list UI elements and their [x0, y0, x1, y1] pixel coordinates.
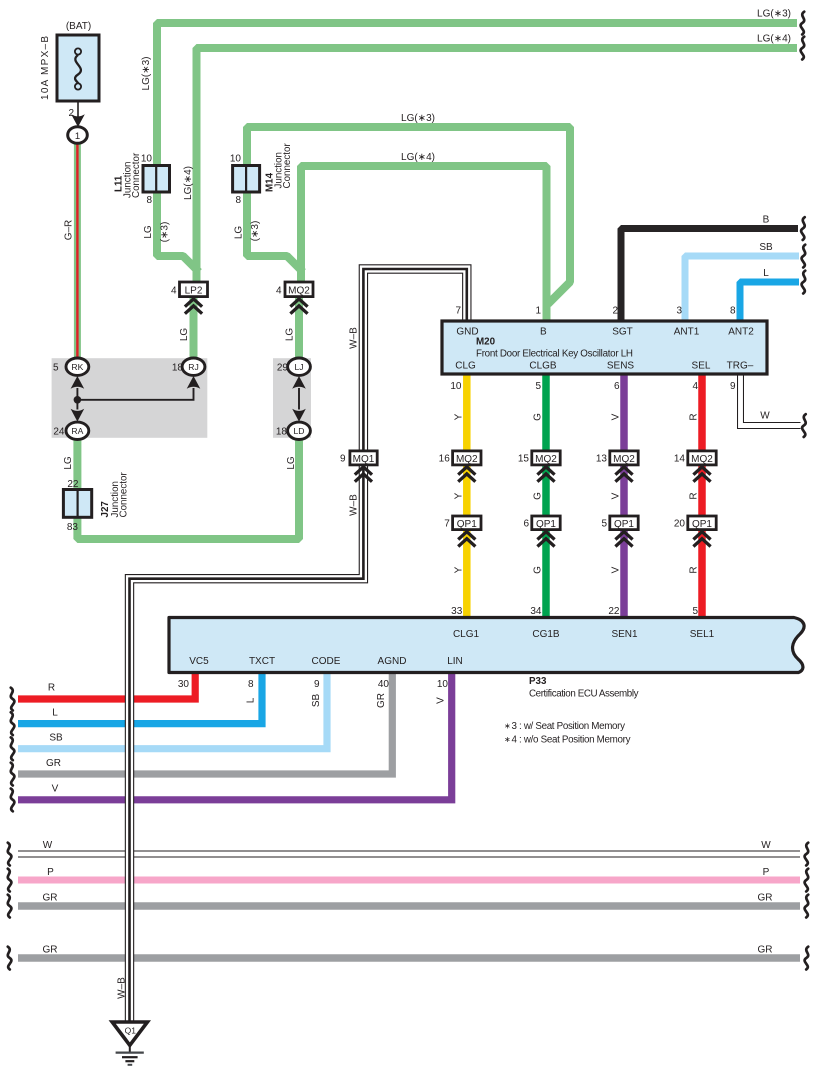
svg-text:Connector: Connector [131, 152, 142, 198]
break right B [801, 217, 805, 240]
svg-text:CLG: CLG [455, 361, 476, 372]
svg-text:LG(∗3): LG(∗3) [141, 57, 152, 91]
break left SB [11, 737, 15, 760]
oval LJ [277, 358, 311, 375]
svg-text:W–B: W–B [117, 977, 128, 999]
wire GR bottom 2 [18, 954, 800, 962]
connector 14 MQ2 [674, 451, 716, 465]
connector chevrons 7 QP1 [458, 532, 475, 547]
svg-text:RJ: RJ [188, 362, 199, 372]
svg-text:10: 10 [450, 381, 462, 392]
junction connector J27 [63, 472, 129, 533]
svg-text:GR: GR [758, 945, 773, 956]
svg-text:Y: Y [454, 413, 465, 420]
break left P [8, 869, 12, 892]
svg-text:MQ2: MQ2 [288, 285, 310, 296]
svg-text:R: R [48, 683, 55, 694]
break left W bottom [8, 843, 12, 866]
wire LG J27 to LD [77, 439, 299, 539]
svg-text:LG: LG [285, 328, 296, 342]
svg-text:P: P [763, 867, 770, 878]
svg-text:3 : w/ Seat Position Memory: 3 : w/ Seat Position Memory [512, 721, 626, 732]
svg-text:18: 18 [172, 362, 184, 373]
svg-text:29: 29 [277, 362, 289, 373]
junction connector L11 [114, 152, 170, 206]
break right GR1 [805, 895, 809, 918]
wire W-B GND to MQ1 [363, 269, 466, 451]
svg-text:7: 7 [455, 306, 461, 317]
svg-text:18: 18 [276, 426, 288, 437]
svg-text:LP2: LP2 [185, 285, 203, 296]
svg-text:8: 8 [248, 679, 254, 690]
fuse 10A MPX-B [57, 35, 99, 101]
svg-text:QP1: QP1 [536, 519, 556, 530]
svg-text:CLGB: CLGB [529, 361, 557, 372]
shield box right (LJ LD) [273, 358, 311, 438]
wire G-R fuse node 1 to RK [74, 141, 81, 358]
wire LG M14 pin 8 to MQ2 riser [247, 192, 303, 273]
wire LG MQ2 to LJ [295, 297, 303, 359]
svg-text:GR: GR [46, 758, 61, 769]
svg-text:LG: LG [63, 456, 74, 470]
svg-text:2: 2 [612, 306, 618, 317]
break right top LG(*3) [801, 12, 805, 35]
svg-text:1: 1 [535, 306, 541, 317]
wire Y CLG to CLG1 [463, 374, 471, 618]
svg-text:V: V [52, 784, 59, 795]
svg-text:SEL1: SEL1 [690, 629, 715, 640]
svg-text:4: 4 [692, 381, 698, 392]
svg-text:GR: GR [43, 945, 58, 956]
svg-text:G–R: G–R [64, 220, 75, 241]
svg-text:4: 4 [171, 285, 177, 296]
wire LG(*4) MQ2 riser to M20 pin 1 B [301, 166, 547, 320]
connector 15 MQ2 [518, 451, 560, 465]
svg-text:10: 10 [437, 679, 449, 690]
pin 2 of fuse [68, 101, 78, 119]
svg-text:LG(∗3): LG(∗3) [757, 9, 791, 20]
connector chevrons 5 QP1 [615, 532, 632, 547]
svg-text:9: 9 [730, 381, 736, 392]
svg-text:SEN1: SEN1 [611, 629, 638, 640]
wire V left to LIN [18, 672, 452, 800]
svg-text:CG1B: CG1B [532, 629, 560, 640]
svg-text:LG: LG [286, 456, 297, 470]
connector chevrons 6 QP1 [537, 532, 554, 547]
connector 13 MQ2 [596, 451, 638, 465]
svg-text:G: G [533, 492, 544, 500]
svg-text:SGT: SGT [612, 327, 633, 338]
svg-text:LIN: LIN [447, 656, 463, 667]
svg-text:Q1: Q1 [125, 1026, 137, 1036]
svg-text:10: 10 [141, 154, 153, 165]
svg-text:(∗3): (∗3) [160, 222, 171, 243]
svg-text:QP1: QP1 [692, 519, 712, 530]
svg-text:P33: P33 [529, 676, 547, 687]
oval RA [53, 422, 88, 439]
svg-text:MQ2: MQ2 [456, 454, 478, 465]
svg-text:M20: M20 [476, 337, 496, 348]
connector chevrons MQ1 [355, 467, 372, 482]
wire B black SGT to right edge [621, 229, 798, 321]
break right W [802, 414, 806, 437]
svg-text:LG: LG [234, 226, 245, 240]
svg-text:20: 20 [674, 519, 686, 530]
arrow into node 1 [71, 114, 85, 127]
wire junction to RJ with arrow [77, 376, 200, 400]
wire R SEL to SEL1 [698, 374, 706, 618]
wire W TRG- to right edge [741, 374, 801, 426]
svg-text:Connector: Connector [119, 472, 130, 518]
svg-text:22: 22 [608, 606, 620, 617]
svg-text:8: 8 [730, 306, 736, 317]
break right P [805, 869, 809, 892]
svg-text:L: L [52, 708, 58, 719]
wire SB ANT1 to right edge [685, 256, 799, 320]
wire G CLGB to CG1B [542, 374, 550, 618]
oval LD [276, 422, 311, 439]
connector chevrons 15 MQ2 [537, 467, 554, 482]
connector 5 QP1 [601, 516, 638, 530]
svg-text:Y: Y [454, 492, 465, 499]
svg-text:MQ1: MQ1 [353, 454, 375, 465]
junction dot [74, 396, 82, 404]
connector 4 MQ2 [276, 282, 313, 297]
svg-text:L: L [246, 697, 257, 703]
svg-text:∗: ∗ [504, 735, 511, 744]
svg-text:V: V [436, 697, 447, 704]
svg-text:SB: SB [49, 733, 63, 744]
svg-text:LG(∗3): LG(∗3) [401, 113, 435, 124]
ground Q1 [112, 1022, 147, 1045]
connector chevrons LP2 [185, 299, 202, 314]
svg-text:30: 30 [178, 679, 190, 690]
svg-text:4: 4 [276, 285, 282, 296]
wire GR left to AGND [18, 672, 392, 774]
svg-text:8: 8 [146, 195, 152, 206]
break right GR2 [805, 947, 809, 970]
connector chevrons 13 MQ2 [615, 467, 632, 482]
node 1 oval [68, 127, 88, 144]
break left GR1 [8, 895, 12, 918]
svg-text:QP1: QP1 [457, 519, 477, 530]
svg-text:40: 40 [378, 679, 390, 690]
svg-text:(BAT): (BAT) [66, 21, 91, 32]
svg-text:14: 14 [674, 454, 686, 465]
svg-text:R: R [689, 566, 700, 573]
svg-text:22: 22 [67, 479, 79, 490]
svg-text:V: V [611, 492, 622, 499]
svg-text:TXCT: TXCT [249, 656, 275, 667]
wire LJ to LD with arrows [292, 376, 306, 422]
break right top LG(*4) [801, 37, 805, 60]
connector chevrons MQ2 top [290, 299, 307, 314]
wire LG LP2 to RJ [190, 297, 198, 359]
svg-text:Y: Y [454, 566, 465, 573]
svg-text:RA: RA [71, 426, 83, 436]
connector 6 QP1 [523, 516, 560, 530]
svg-text:5: 5 [535, 381, 541, 392]
svg-text:34: 34 [530, 606, 542, 617]
svg-text:83: 83 [67, 522, 79, 533]
svg-text:W–B: W–B [349, 494, 360, 516]
svg-text:GR: GR [376, 693, 387, 708]
svg-text:SEL: SEL [692, 361, 711, 372]
svg-text:Front Door Electrical Key Osci: Front Door Electrical Key Oscillator LH [476, 349, 633, 360]
svg-text:B: B [540, 327, 547, 338]
wire R left to VC5 [18, 672, 195, 699]
svg-text:TRG–: TRG– [727, 361, 754, 372]
svg-text:7: 7 [444, 519, 450, 530]
break right SB [802, 245, 806, 268]
svg-text:8: 8 [235, 195, 241, 206]
svg-text:33: 33 [451, 606, 463, 617]
svg-text:5: 5 [692, 606, 698, 617]
svg-text:W: W [43, 840, 53, 851]
arrow into RA [71, 400, 85, 422]
svg-text:3: 3 [676, 306, 682, 317]
wire P bottom [18, 877, 800, 884]
wire GR bottom 1 [18, 902, 800, 910]
wire LG(*4) LP2 riser to right edge [197, 48, 798, 282]
svg-text:15: 15 [518, 454, 530, 465]
svg-text:24: 24 [53, 426, 65, 437]
svg-text:QP1: QP1 [614, 519, 634, 530]
svg-text:GR: GR [43, 893, 58, 904]
break left GR2 [8, 947, 12, 970]
svg-text:10A MPX–B: 10A MPX–B [40, 36, 51, 100]
junction connector M14 [230, 143, 293, 206]
connector 4 LP2 [171, 282, 208, 297]
svg-text:6: 6 [523, 519, 529, 530]
wire LG(*3) L11 pin 10 to right edge [157, 23, 797, 166]
svg-text:AGND: AGND [378, 656, 407, 667]
svg-text:MQ2: MQ2 [535, 454, 557, 465]
svg-text:9: 9 [340, 454, 346, 465]
svg-text:LG(∗4): LG(∗4) [757, 34, 791, 45]
wire L left to TXCT [18, 672, 262, 724]
wire SB left to CODE [18, 672, 327, 749]
svg-text:LG(∗4): LG(∗4) [401, 152, 435, 163]
svg-text:SB: SB [311, 694, 322, 708]
svg-text:ANT2: ANT2 [728, 327, 754, 338]
svg-text:CODE: CODE [312, 656, 341, 667]
component P33 Certification ECU Assembly [169, 618, 804, 673]
svg-text:R: R [689, 413, 700, 420]
break left V [11, 789, 15, 812]
shield box left (RK RJ RA) [52, 358, 208, 438]
svg-text:13: 13 [596, 454, 608, 465]
wire W bottom [18, 851, 800, 858]
connector chevrons 16 MQ2 [458, 467, 475, 482]
svg-text:5: 5 [53, 362, 59, 373]
wire LG RA to J27 [73, 439, 81, 490]
svg-text:G: G [533, 413, 544, 421]
svg-text:G: G [533, 566, 544, 574]
svg-text:4 : w/o Seat Position Memory: 4 : w/o Seat Position Memory [512, 735, 631, 746]
connector 7 QP1 [444, 516, 481, 530]
svg-text:(∗3): (∗3) [250, 221, 261, 242]
connector 20 QP1 [674, 516, 716, 530]
wire W-B MQ1 to ground Q1 [130, 465, 364, 1023]
svg-text:W: W [760, 411, 770, 422]
component M20 Front Door Electrical Key Oscillator LH [442, 321, 767, 374]
svg-text:LG: LG [143, 225, 154, 239]
svg-text:L: L [763, 268, 769, 279]
svg-text:CLG1: CLG1 [453, 629, 480, 640]
wire V SENS to SEN1 [620, 374, 628, 618]
oval RJ [172, 358, 205, 375]
svg-text:LD: LD [294, 426, 305, 436]
svg-text:6: 6 [614, 381, 620, 392]
break left L [11, 712, 15, 735]
connector 16 MQ2 [439, 451, 481, 465]
connector chevrons 20 QP1 [693, 532, 710, 547]
wire LG L11 pin 8 to LP2 riser [157, 192, 199, 273]
oval RK [53, 358, 89, 375]
svg-text:P: P [47, 867, 54, 878]
wire LG(*3) M14 pin 10 to M20 pin B merge [247, 127, 570, 304]
connector 9 MQ1 [340, 451, 377, 465]
svg-text:∗: ∗ [504, 722, 511, 731]
svg-text:10: 10 [230, 154, 242, 165]
svg-text:MQ2: MQ2 [613, 454, 635, 465]
svg-text:VC5: VC5 [189, 656, 209, 667]
svg-text:LG: LG [179, 328, 190, 342]
break left R [11, 688, 15, 711]
arrow into RK [71, 376, 85, 400]
svg-text:ANT1: ANT1 [674, 327, 700, 338]
wire L ANT2 to right edge [740, 282, 799, 320]
svg-text:MQ2: MQ2 [691, 454, 713, 465]
svg-text:1: 1 [75, 131, 80, 142]
svg-text:GR: GR [758, 893, 773, 904]
connector chevrons 14 MQ2 [693, 467, 710, 482]
svg-text:5: 5 [601, 519, 607, 530]
break right W bottom [805, 843, 809, 866]
svg-text:W–B: W–B [349, 327, 360, 349]
svg-text:LG(∗4): LG(∗4) [183, 166, 194, 200]
svg-text:Certification ECU Assembly: Certification ECU Assembly [529, 689, 639, 700]
svg-text:SENS: SENS [607, 361, 635, 372]
svg-text:R: R [689, 492, 700, 499]
svg-text:V: V [611, 413, 622, 420]
svg-text:RK: RK [71, 362, 83, 372]
svg-text:16: 16 [439, 454, 451, 465]
svg-text:W: W [761, 840, 771, 851]
break right L [802, 271, 806, 294]
break left GR [11, 763, 15, 786]
svg-text:B: B [763, 215, 770, 226]
svg-text:9: 9 [314, 679, 320, 690]
svg-text:SB: SB [759, 242, 773, 253]
svg-text:LJ: LJ [294, 362, 303, 372]
ground earth stem and bars [116, 1045, 144, 1065]
svg-text:V: V [611, 566, 622, 573]
svg-text:Connector: Connector [282, 143, 293, 189]
